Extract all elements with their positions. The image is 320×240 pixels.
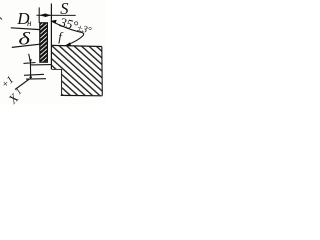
leader line under в — [12, 44, 40, 47]
arrow up to lower surface — [29, 75, 32, 78]
tick 2 — [24, 74, 44, 75]
X1 leader diagonal — [15, 79, 29, 90]
arrow to block edge — [64, 42, 71, 46]
groove flank line — [31, 64, 53, 66]
tick 1 — [24, 62, 36, 65]
arrow to cylinder line — [51, 20, 57, 23]
fleck at left margin — [0, 18, 2, 20]
block step — [51, 69, 61, 95]
S arrow right — [45, 14, 51, 18]
angle leader arc — [51, 21, 84, 46]
block hatched body — [52, 46, 102, 95]
arrow down to upper surface — [29, 59, 32, 63]
cylinder face line — [50, 4, 52, 70]
dimension S line — [36, 14, 75, 16]
label в (ring height) — [18, 29, 31, 49]
X1 dimension line vertical — [29, 54, 31, 79]
extension line above ring — [38, 7, 40, 23]
block right edge — [101, 47, 104, 96]
svg-text:35°±3°: 35°±3° — [57, 14, 93, 37]
svg-text:f: f — [58, 29, 64, 44]
S arrow left — [39, 13, 45, 17]
ring cross-section (hatched bar) — [40, 23, 48, 62]
angle text 35°±3° — [57, 14, 93, 37]
label X1 +1 (rotated) — [5, 90, 22, 107]
shelf line — [26, 78, 46, 80]
block bottom edge — [61, 94, 103, 96]
svg-text:н: н — [27, 18, 32, 28]
block top edge — [52, 45, 102, 46]
leader line under Dн — [11, 28, 40, 30]
